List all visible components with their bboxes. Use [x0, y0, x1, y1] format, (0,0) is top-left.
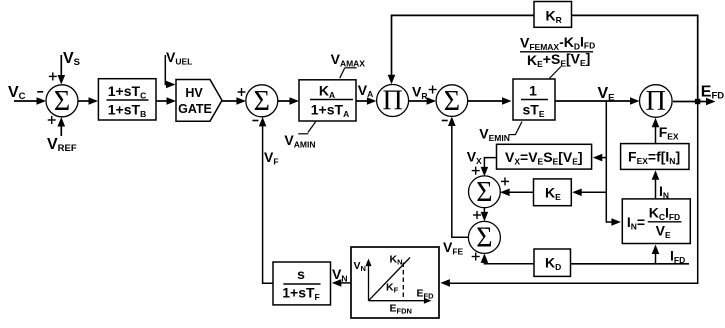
wire FEX arrow up into P2: [652, 118, 660, 144]
wire TC/TB block to HV gate: [156, 97, 176, 105]
node VN label: [332, 266, 347, 283]
block IN=KC IFD/VE: [622, 199, 690, 244]
node VA label: [358, 82, 373, 99]
svg-text:GATE: GATE: [178, 102, 212, 116]
sign plus at S1 top input: [49, 72, 57, 80]
sign plus at S4 right input: [501, 177, 509, 185]
svg-text:1+sTF: 1+sTF: [282, 285, 320, 303]
gate HV GATE: [176, 80, 222, 122]
node VE label: [598, 85, 615, 103]
wire EFD junction up to KR input: [572, 15, 698, 101]
block VX=VE SE[VE]: [497, 144, 592, 169]
limit label VEMIN: [479, 122, 522, 143]
wire HV gate to summer S2: [222, 97, 246, 105]
node FEX label: [659, 124, 679, 141]
block KR: [534, 2, 572, 28]
sign plus between S4 and S5: [473, 211, 481, 219]
summing junction S2: [246, 85, 278, 117]
wire IFD input line: [571, 263, 690, 265]
node IN label: [659, 183, 669, 200]
svg-text:Σ: Σ: [254, 86, 270, 117]
block FEX=f[IN]: [621, 144, 689, 170]
sign minus at S1 left input: [37, 91, 43, 93]
wire VC input arrow into summer S1: [14, 97, 46, 105]
wire P2 to EFD output: [673, 101, 695, 103]
limit expression (VFEMAX-KD IFD)/(KE+SE[VE]): [520, 33, 595, 78]
wire KD output up into S5: [481, 253, 534, 263]
svg-text:IN=: IN=: [627, 214, 645, 232]
multiplier P1: [377, 85, 409, 117]
block KD: [534, 249, 571, 276]
node VR label: [412, 84, 427, 101]
wire EFD output arrow: [700, 98, 716, 106]
node VC input label: [8, 84, 26, 102]
svg-text:s: s: [297, 266, 305, 282]
svg-text:1: 1: [529, 83, 537, 99]
node VF label: [264, 149, 279, 166]
summing junction S4: [469, 176, 501, 208]
wire S3 to block 1/sTE: [468, 97, 512, 105]
sign minus at S3 bottom input: [442, 120, 448, 122]
multiplier P2: [640, 85, 673, 118]
wire VE branch left into KE block: [572, 189, 606, 197]
node IFD label: [670, 248, 685, 265]
svg-text:Σ: Σ: [476, 223, 492, 254]
sign minus at S2 bottom input: [252, 120, 258, 122]
svg-text:HV: HV: [185, 86, 203, 100]
sign plus at S1 bottom input: [48, 116, 56, 124]
graph slope line KN: [369, 258, 411, 301]
junction EFD node: [695, 99, 700, 104]
svg-text:Π: Π: [646, 86, 666, 117]
block integrator 1/sTE: [513, 79, 555, 120]
svg-text:Σ: Σ: [54, 86, 70, 117]
sign plus at S3 left input: [429, 86, 437, 94]
svg-text:Σ: Σ: [444, 86, 460, 117]
node VFE label: [443, 239, 464, 256]
summing junction S5: [468, 221, 500, 253]
wire EFD feedback down right side to graph block: [440, 104, 697, 287]
graph y-axis VN: [368, 261, 370, 301]
wire KE output into S4: [500, 189, 533, 197]
wire graph block output into TF block: [332, 279, 351, 287]
wire VFE from S5 up into S3: [448, 117, 469, 238]
summing junction S1: [46, 85, 78, 117]
wire KR output down into P1: [388, 15, 534, 84]
sign plus at S4 top input: [472, 167, 480, 175]
wire IFD branch up into IN block: [652, 245, 660, 264]
wire TE block to multiplier P2: [555, 97, 640, 105]
wire P1 to summer S3: [409, 97, 436, 105]
wire IN arrow up into FEX block: [652, 170, 660, 199]
wire VUEL elbow arrow into HV gate: [165, 55, 175, 88]
wire S4 down into S5: [481, 208, 489, 222]
block lead-lag (1+sTC)/(1+sTB): [98, 79, 156, 120]
wire S2 to block KA: [278, 97, 299, 105]
block washout s/(1+sTF): [273, 262, 331, 305]
block KA/(1+sTA): [299, 80, 356, 121]
node EFD label: [701, 84, 724, 102]
wire S1 to block TC/TB: [78, 97, 98, 105]
node VX label: [467, 149, 482, 166]
sign plus at S2 left input: [238, 88, 246, 96]
wire VF feedback riser into S2: [259, 117, 273, 283]
wire VREF arrow up into S1: [58, 117, 66, 136]
node VS label: [63, 50, 80, 68]
summing junction S3: [436, 85, 468, 117]
node VREF label: [47, 136, 77, 154]
block KE: [534, 179, 572, 206]
wire VE branch left into VX block: [593, 154, 607, 162]
graph dashed line at EFDN: [402, 263, 404, 301]
wire VS arrow down into S1: [58, 55, 66, 85]
svg-text:Π: Π: [382, 86, 402, 117]
wire KA block to multiplier P1: [356, 97, 376, 105]
node VUEL label: [166, 49, 192, 66]
limit label VAMIN: [284, 121, 316, 149]
wire VE tap down then right into IN block: [606, 101, 621, 226]
block saturation graph: [351, 247, 439, 318]
limit label VAMAX: [331, 51, 366, 78]
svg-text:Σ: Σ: [476, 177, 492, 208]
graph x-axis EFD: [369, 300, 429, 302]
wire VX elbow down into S4: [481, 158, 497, 177]
sign plus at S5 bottom input: [472, 253, 480, 261]
